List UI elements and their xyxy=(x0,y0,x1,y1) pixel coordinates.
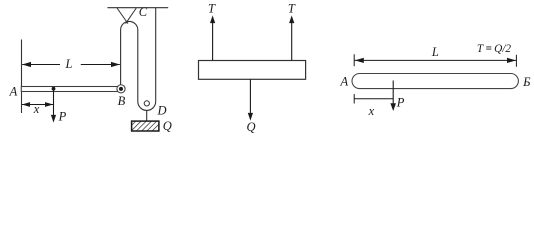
block body xyxy=(199,61,306,80)
svg-text:A: A xyxy=(339,75,348,89)
pin at B (ring) xyxy=(117,85,125,93)
svg-text:T = Q/2: T = Q/2 xyxy=(477,43,512,55)
svg-text:T: T xyxy=(288,2,296,16)
svg-text:A: A xyxy=(9,85,18,99)
svg-text:L: L xyxy=(431,45,439,59)
node: load application point on beam xyxy=(52,87,56,91)
force T arrow (left) xyxy=(210,15,215,60)
wire: rope from B over pulley C down around pulley D up to ceiling xyxy=(121,8,156,110)
svg-text:P: P xyxy=(396,96,405,110)
svg-text:x: x xyxy=(368,104,375,118)
force Q arrow (middle figure) xyxy=(248,79,253,120)
weight Q (hatched block) xyxy=(132,121,159,131)
svg-text:Q: Q xyxy=(246,120,255,134)
beam AB xyxy=(21,87,121,92)
svg-text:C: C xyxy=(139,5,148,19)
dimension L (right figure) with end ticks xyxy=(354,54,516,67)
ceiling line xyxy=(107,7,168,9)
svg-text:Б: Б xyxy=(522,75,531,89)
node B (pin dot) xyxy=(119,87,123,91)
svg-text:Q: Q xyxy=(163,119,172,133)
dimension x (right figure) with end tick xyxy=(354,94,393,103)
force T arrow (right) xyxy=(289,15,294,60)
force P arrow (right figure) xyxy=(390,81,396,112)
wire: hanger from pulley D to weight Q xyxy=(146,110,148,121)
wall reference line at A xyxy=(21,40,23,114)
svg-text:B: B xyxy=(118,94,126,108)
svg-text:D: D xyxy=(157,104,167,118)
rod A-Б (slender bar) xyxy=(352,74,518,89)
svg-text:x: x xyxy=(33,102,40,116)
svg-text:L: L xyxy=(65,57,73,71)
dimension x (left figure) xyxy=(22,102,53,107)
svg-text:T: T xyxy=(208,2,216,16)
pulley C bracket (V hanger from ceiling) xyxy=(117,8,136,24)
pulley D axle xyxy=(144,101,149,106)
svg-text:P: P xyxy=(58,109,67,123)
force P arrow (left figure) xyxy=(51,89,56,123)
dimension L (left figure) xyxy=(22,62,120,67)
